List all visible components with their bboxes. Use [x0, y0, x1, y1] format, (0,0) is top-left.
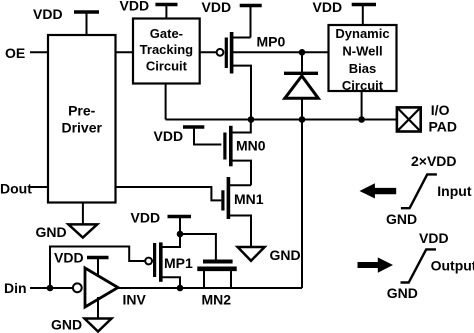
VDD supply symbol (MP1)	[168, 217, 192, 235]
wire OE input	[30, 51, 48, 53]
svg-text:GND: GND	[387, 285, 418, 301]
svg-text:GND: GND	[51, 317, 82, 333]
wire Dynamic box to pad rail	[361, 91, 363, 120]
wire MP0 n-well to Dynamic N-Well Bias	[233, 51, 329, 53]
svg-text:2×VDD: 2×VDD	[411, 153, 457, 169]
I/O PAD symbol	[397, 107, 421, 131]
node junction bias/pad	[358, 116, 365, 123]
svg-text:Dout: Dout	[0, 181, 32, 197]
diode (parasitic, pad to n-well)	[284, 52, 318, 119]
svg-text:Dynamic: Dynamic	[335, 26, 389, 41]
wire pad to output stage	[301, 120, 303, 289]
svg-text:N-Well: N-Well	[342, 44, 382, 59]
VDD supply symbol (MN0 gate)	[183, 127, 221, 145]
wire Pre-Driver to MN1 gate	[116, 187, 222, 200]
VDD supply symbol (Gate-Tracking)	[155, 5, 177, 19]
svg-text:Bias: Bias	[349, 61, 376, 76]
svg-text:VDD: VDD	[120, 0, 150, 14]
svg-text:Din: Din	[4, 280, 27, 296]
svg-text:Pre-: Pre-	[68, 102, 96, 118]
svg-text:I/O: I/O	[431, 102, 450, 118]
node junction MP1 drain / INV out	[177, 285, 184, 292]
VDD supply symbol (Dynamic N-Well)	[352, 5, 376, 26]
svg-text:Circuit: Circuit	[146, 59, 188, 74]
transistor MN1	[223, 177, 251, 247]
svg-text:GND: GND	[270, 247, 301, 263]
node junction MP0 drain / MN0 drain	[248, 116, 255, 123]
transistor MP1	[145, 234, 180, 288]
arrow output (right)	[358, 257, 394, 272]
ground (INV)	[85, 297, 112, 332]
svg-text:Input: Input	[437, 183, 472, 199]
node junction nwell/diode	[299, 49, 306, 56]
transistor MP0	[217, 32, 251, 120]
Gate-Tracking label	[140, 26, 194, 74]
VDD supply symbol (Pre-Driver)	[74, 12, 99, 35]
svg-text:VDD: VDD	[419, 230, 449, 246]
svg-text:OE: OE	[5, 45, 25, 61]
wire pad rail	[166, 119, 397, 121]
wire VDD to MN2 gate	[180, 234, 216, 260]
wire INV output to pad branch	[117, 287, 302, 289]
svg-text:MN2: MN2	[202, 292, 232, 308]
wire Gate-Tracking to MP0 gate	[200, 51, 217, 53]
svg-text:Circuit: Circuit	[342, 78, 384, 93]
arrow input (left)	[360, 183, 397, 198]
node junction diode/pad	[299, 116, 306, 123]
Pre-Driver block	[48, 35, 116, 203]
svg-text:GND: GND	[36, 224, 67, 240]
ground (MN1 source)	[238, 247, 265, 261]
svg-text:Gate-: Gate-	[150, 26, 183, 41]
capacitor MN2 (MOS cap)	[197, 262, 236, 289]
VDD supply symbol (INV)	[87, 258, 109, 278]
svg-text:GND: GND	[386, 211, 417, 227]
ground (Pre-Driver)	[68, 203, 97, 238]
svg-text:INV: INV	[123, 292, 147, 308]
svg-text:PAD: PAD	[429, 119, 458, 135]
wire Din input	[30, 287, 73, 289]
svg-text:Tracking: Tracking	[140, 42, 194, 57]
output waveform ramp	[401, 249, 437, 282]
svg-text:VDD: VDD	[33, 6, 63, 22]
VDD supply symbol (MP0)	[240, 6, 262, 38]
wire Din to MP1 gate	[50, 247, 144, 289]
Dynamic N-Well Bias label	[335, 26, 389, 93]
transistor MN0	[225, 120, 251, 186]
I/O PAD label	[429, 102, 458, 135]
Pre-Driver label	[61, 102, 102, 135]
node junction Din	[47, 285, 54, 292]
wire Pre-Driver to Gate-Tracking	[116, 51, 134, 53]
svg-text:VDD: VDD	[54, 250, 84, 266]
svg-text:MN0: MN0	[236, 138, 266, 154]
svg-text:MN1: MN1	[234, 191, 264, 207]
svg-text:VDD: VDD	[202, 0, 232, 15]
svg-text:Driver: Driver	[61, 119, 102, 135]
svg-text:VDD: VDD	[313, 0, 343, 15]
wire Gate-Tracking to pad rail	[165, 84, 167, 120]
wire Dout input	[30, 186, 48, 188]
svg-text:MP0: MP0	[257, 34, 286, 50]
input waveform ramp	[401, 174, 437, 208]
svg-text:VDD: VDD	[154, 128, 184, 144]
svg-text:VDD: VDD	[131, 210, 161, 226]
node junction MP1 source / VDD	[177, 231, 184, 238]
Gate-Tracking Circuit block	[133, 19, 200, 84]
svg-text:MP1: MP1	[164, 255, 193, 271]
svg-text:Output: Output	[431, 258, 474, 274]
inverter INV	[73, 268, 118, 307]
Dynamic N-Well Bias Circuit block	[329, 25, 397, 91]
